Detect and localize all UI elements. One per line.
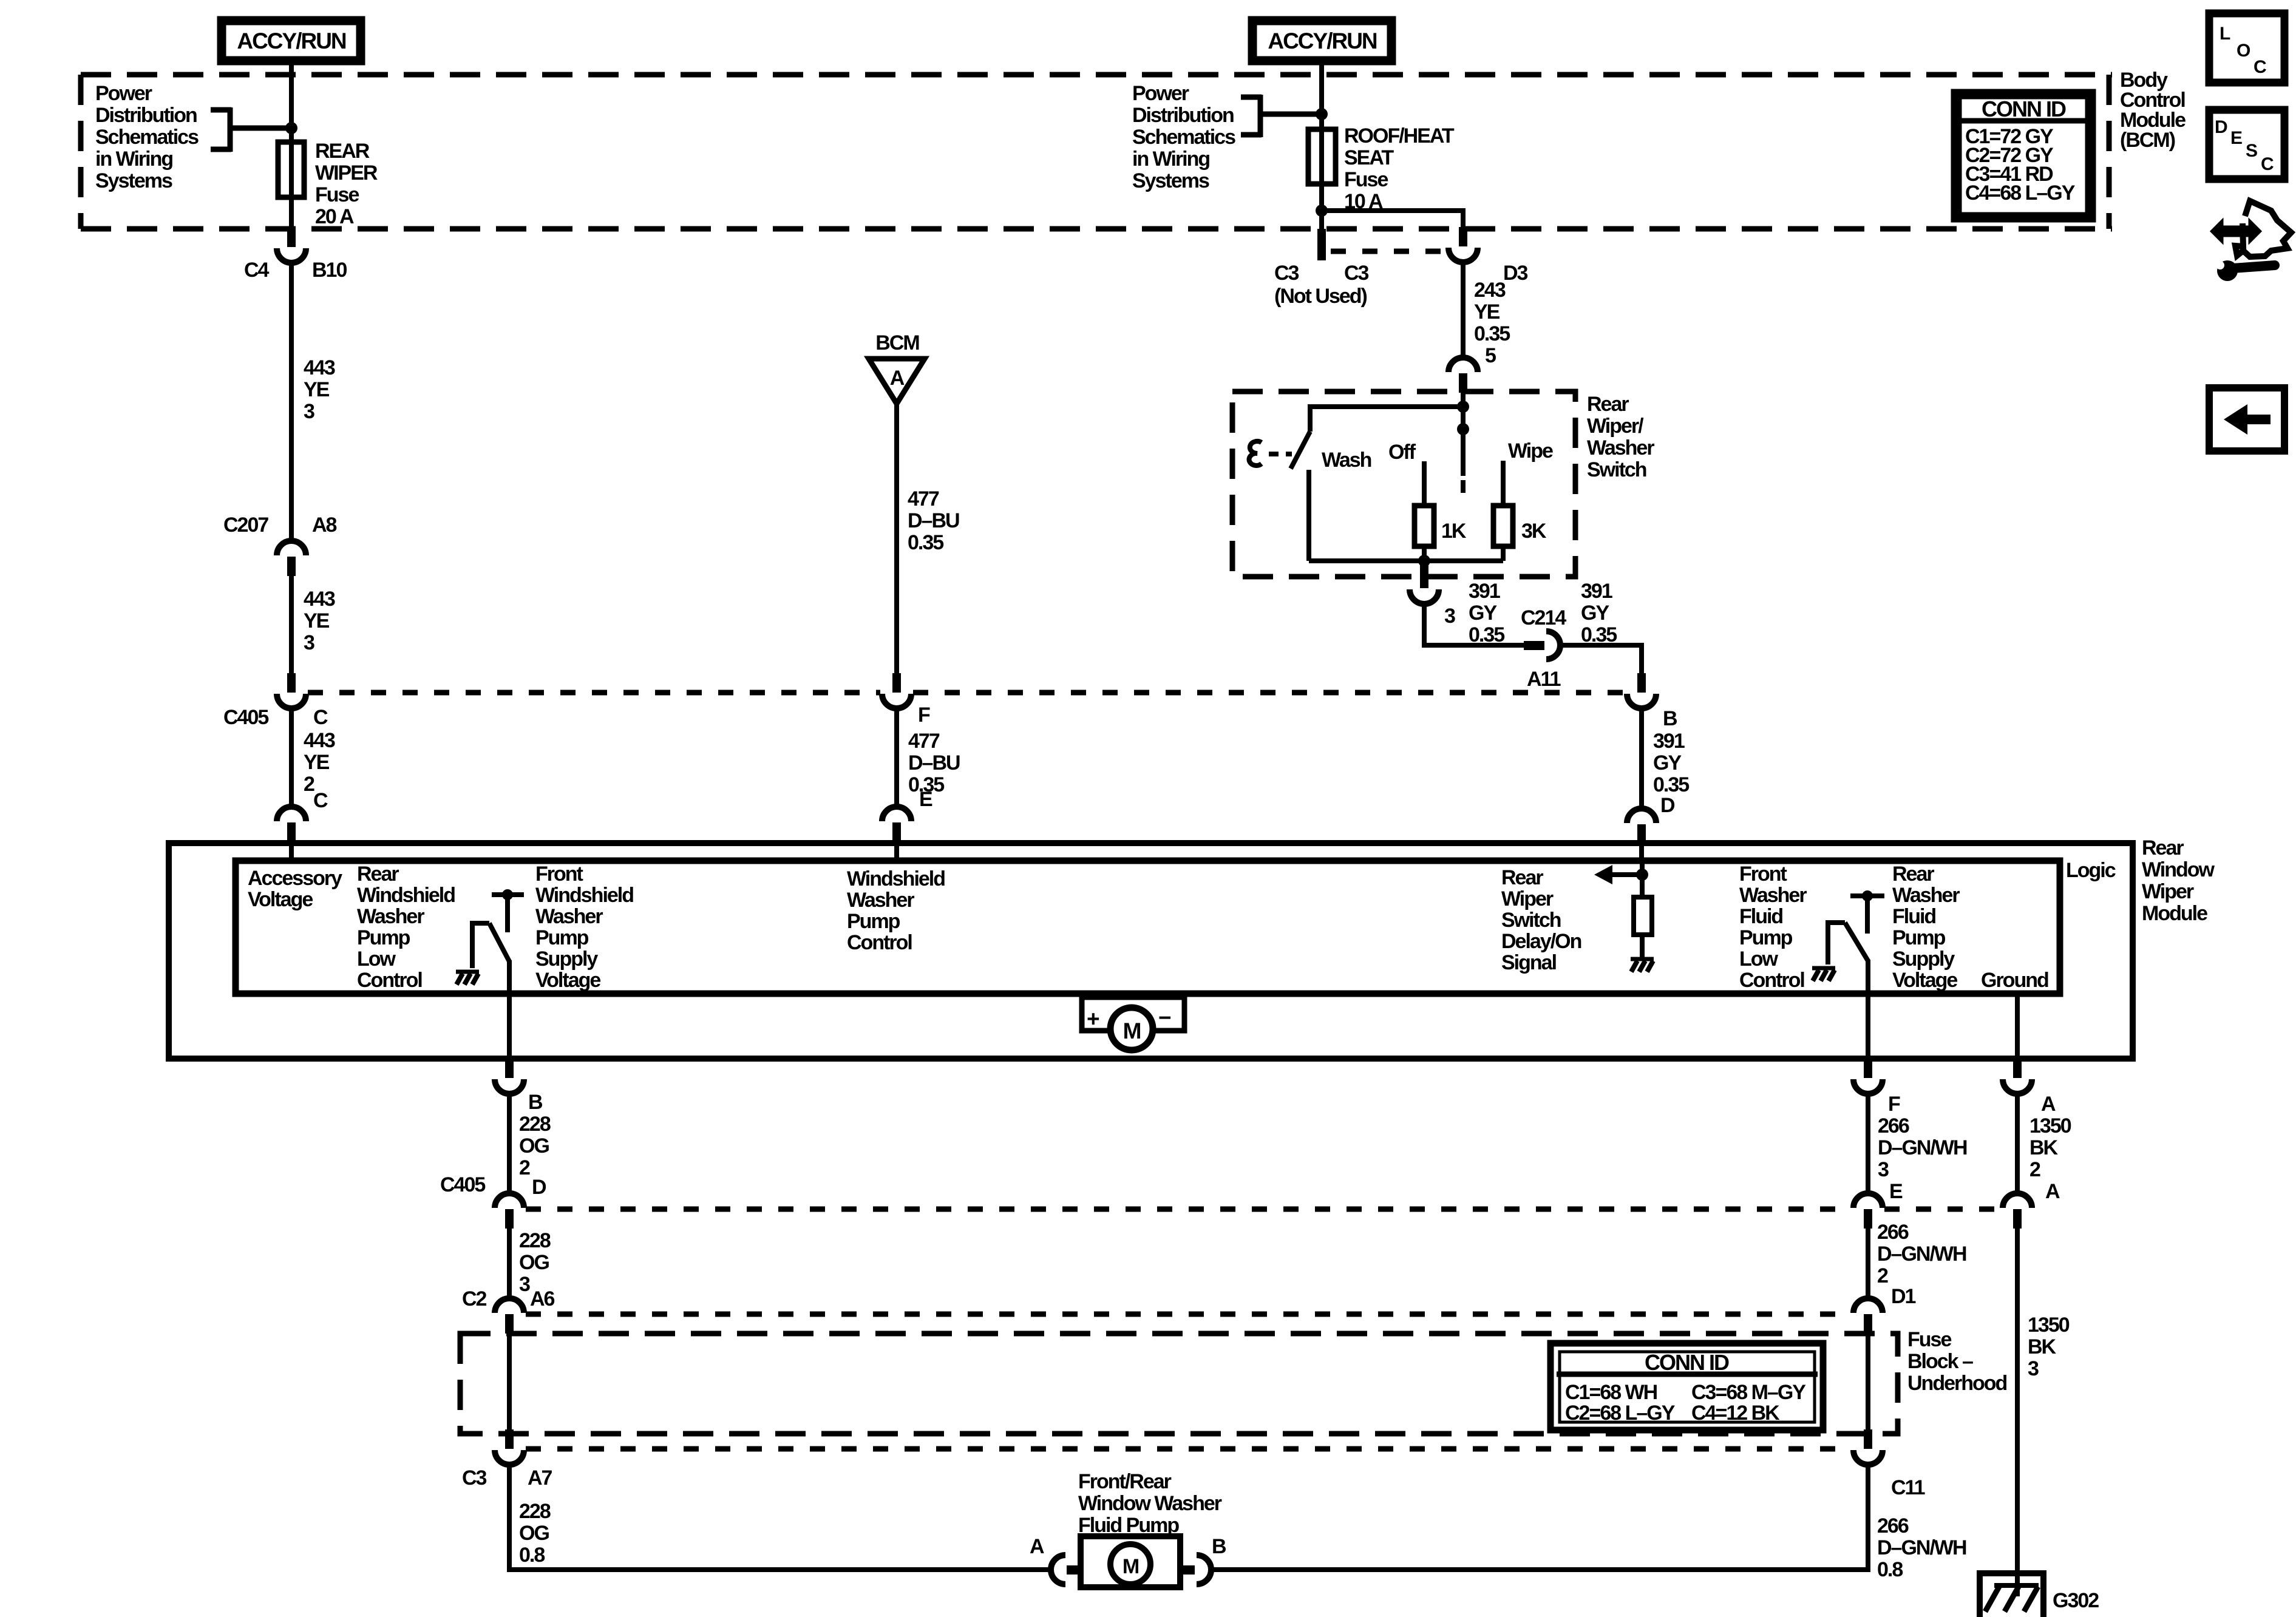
connector C4/B10 bbox=[277, 228, 306, 263]
svg-text:D1: D1 bbox=[1891, 1285, 1916, 1308]
node junction switch input 2 bbox=[1457, 423, 1469, 435]
switch pole open end dash bbox=[1461, 480, 1466, 493]
svg-text:Fluid: Fluid bbox=[1739, 905, 1782, 928]
svg-text:ACCY/RUN: ACCY/RUN bbox=[1268, 29, 1377, 53]
node junction switch output bbox=[1418, 555, 1430, 567]
svg-text:M: M bbox=[1123, 1019, 1141, 1043]
wire into module bbox=[894, 842, 899, 861]
svg-text:Wiper: Wiper bbox=[1501, 887, 1554, 910]
wire into module bbox=[289, 842, 294, 861]
svg-text:Front/Rear: Front/Rear bbox=[1078, 1470, 1172, 1493]
icon hand with arrow and wrench bbox=[2211, 201, 2291, 281]
svg-text:L: L bbox=[2220, 24, 2230, 44]
svg-text:Front: Front bbox=[1739, 863, 1787, 886]
svg-text:+: + bbox=[1087, 1006, 1099, 1031]
wire 477 D-BU bbox=[894, 404, 899, 673]
svg-text:A: A bbox=[890, 367, 905, 390]
resistor 3K bbox=[1493, 506, 1513, 546]
wire 228 OG 3 bbox=[507, 1229, 512, 1301]
svg-text:D–BU: D–BU bbox=[908, 509, 959, 532]
svg-text:D: D bbox=[532, 1176, 546, 1199]
svg-text:C: C bbox=[313, 789, 328, 812]
svg-text:Systems: Systems bbox=[95, 169, 172, 192]
ground bracket bbox=[1980, 1573, 2043, 1617]
svg-text:228: 228 bbox=[519, 1113, 551, 1136]
svg-text:Switch: Switch bbox=[1501, 909, 1561, 932]
svg-text:Voltage: Voltage bbox=[1892, 969, 1957, 992]
internal contact left: blade bbox=[489, 923, 509, 961]
svg-text:GY: GY bbox=[1581, 602, 1609, 625]
svg-text:0.8: 0.8 bbox=[1877, 1558, 1903, 1581]
dotted inline connector row 2 bbox=[526, 1207, 1852, 1212]
svg-text:Logic: Logic bbox=[2066, 859, 2116, 882]
wire 266 3 bbox=[1866, 1094, 1870, 1195]
BCM triangle A bbox=[869, 359, 925, 404]
svg-text:477: 477 bbox=[908, 487, 939, 510]
svg-text:YE: YE bbox=[1474, 300, 1500, 324]
wire 228 OG 2 bbox=[507, 1094, 512, 1195]
connector D3 bbox=[1449, 227, 1478, 262]
label 391 GY 0.35 (right) bbox=[1581, 580, 1617, 646]
connector C405 pin D (row 2) bbox=[495, 1193, 524, 1229]
svg-text:0.35: 0.35 bbox=[1474, 322, 1510, 345]
node junction below fuse bbox=[1316, 205, 1328, 217]
svg-text:Windshield: Windshield bbox=[535, 884, 633, 907]
svg-text:B: B bbox=[1663, 707, 1677, 730]
svg-text:A8: A8 bbox=[312, 514, 337, 537]
connector into module (D) bbox=[1627, 808, 1656, 844]
svg-text:M: M bbox=[1123, 1555, 1139, 1578]
svg-text:Low: Low bbox=[357, 947, 396, 971]
svg-text:2: 2 bbox=[2029, 1158, 2040, 1181]
svg-text:D: D bbox=[2215, 117, 2227, 137]
internal contact left: T bar bbox=[492, 892, 524, 897]
svg-text:C: C bbox=[2254, 57, 2266, 77]
svg-text:Fluid: Fluid bbox=[1892, 905, 1935, 928]
wire 391 GY to C214 bbox=[1424, 604, 1524, 645]
svg-text:228: 228 bbox=[519, 1500, 551, 1523]
dashed box bottom edge bbox=[81, 226, 2112, 232]
dashed box top edge bbox=[81, 72, 2112, 78]
wire 443 YE 2 bbox=[289, 708, 294, 807]
svg-text:Power: Power bbox=[95, 82, 152, 105]
svg-text:266: 266 bbox=[1877, 1514, 1909, 1537]
pin text Accessory Voltage bbox=[248, 867, 342, 911]
wire 228 OG 0.8 bbox=[509, 1465, 1051, 1570]
svg-text:Pump: Pump bbox=[1739, 926, 1793, 949]
svg-text:391: 391 bbox=[1581, 580, 1612, 603]
svg-text:D–BU: D–BU bbox=[908, 751, 960, 775]
svg-text:D–GN/WH: D–GN/WH bbox=[1877, 1536, 1966, 1559]
note text: Power Distribution Schematics (left) bbox=[95, 82, 199, 192]
switch dashed box bbox=[1232, 392, 1575, 577]
svg-text:Front: Front bbox=[535, 863, 583, 886]
connector 5 into switch bbox=[1449, 358, 1478, 393]
node junction middle feed bbox=[1316, 108, 1328, 120]
connector row 2 (A) bbox=[2003, 1193, 2032, 1229]
svg-text:O: O bbox=[2237, 41, 2250, 61]
svg-text:OG: OG bbox=[519, 1134, 549, 1158]
wire label 443 YE 3 bbox=[304, 356, 335, 423]
svg-text:0.8: 0.8 bbox=[519, 1544, 545, 1567]
connector pump A arc bbox=[1051, 1555, 1065, 1584]
svg-text:1350: 1350 bbox=[2029, 1114, 2071, 1137]
ground hatches bbox=[1985, 1587, 2038, 1612]
svg-text:391: 391 bbox=[1469, 580, 1500, 603]
power feed box ACCY/RUN (left) bbox=[222, 21, 361, 61]
connector C2 pin A6 (row 3) bbox=[495, 1298, 524, 1334]
fuse block dashed box bbox=[460, 1334, 1898, 1434]
svg-text:3: 3 bbox=[1878, 1158, 1889, 1181]
svg-text:Wash: Wash bbox=[1322, 449, 1371, 472]
svg-text:Distribution: Distribution bbox=[95, 104, 197, 127]
label Front/Rear Window Washer Fluid Pump bbox=[1078, 1470, 1222, 1537]
fuse label bbox=[315, 140, 378, 228]
svg-text:ACCY/RUN: ACCY/RUN bbox=[237, 29, 346, 53]
internal contact right: blade bbox=[1845, 923, 1868, 961]
dotted inline connector row 3 bbox=[526, 1312, 1852, 1317]
svg-text:C405: C405 bbox=[223, 706, 268, 729]
svg-text:E: E bbox=[1889, 1180, 1903, 1203]
svg-text:C3=68 M–GY: C3=68 M–GY bbox=[1691, 1381, 1806, 1404]
svg-text:0.35: 0.35 bbox=[1653, 773, 1689, 796]
svg-text:C4: C4 bbox=[244, 259, 270, 282]
svg-text:Window Washer: Window Washer bbox=[1078, 1492, 1222, 1515]
motor M circle bbox=[1110, 1008, 1153, 1050]
internal wire D input bbox=[1640, 861, 1645, 897]
svg-text:Fuse: Fuse bbox=[1907, 1328, 1951, 1351]
svg-text:YE: YE bbox=[304, 751, 330, 774]
svg-text:OG: OG bbox=[519, 1251, 549, 1274]
svg-text:D–GN/WH: D–GN/WH bbox=[1878, 1136, 1967, 1159]
svg-text:0.35: 0.35 bbox=[908, 531, 943, 554]
pump motor circle bbox=[1110, 1544, 1150, 1584]
wire fuse to C4 bbox=[289, 197, 294, 228]
svg-text:Schematics: Schematics bbox=[1132, 126, 1235, 149]
module outer box bbox=[169, 843, 2133, 1059]
wire below fuse bbox=[1319, 184, 1324, 229]
label 391 GY 0.35 (left) bbox=[1469, 580, 1504, 646]
connector C405 pin B (row 1) bbox=[1627, 673, 1656, 708]
svg-text:BK: BK bbox=[2028, 1335, 2057, 1358]
svg-text:Pump: Pump bbox=[847, 910, 900, 933]
wire through fuse block bbox=[507, 1334, 512, 1433]
node junction D input bbox=[1636, 869, 1648, 881]
svg-text:E: E bbox=[2230, 128, 2242, 148]
svg-text:Wiper/: Wiper/ bbox=[1587, 415, 1644, 438]
resistor 1K bbox=[1415, 506, 1434, 546]
resistor 1K lower stem bbox=[1422, 545, 1427, 561]
svg-text:A11: A11 bbox=[1527, 668, 1561, 691]
svg-text:A: A bbox=[2041, 1093, 2056, 1116]
svg-text:Power: Power bbox=[1132, 82, 1189, 105]
fuse label bbox=[1344, 124, 1455, 213]
connector D1 (row 3) bbox=[1853, 1298, 1883, 1334]
svg-text:C207: C207 bbox=[223, 514, 268, 537]
label Fuse Block - Underhood bbox=[1907, 1328, 2007, 1395]
connector C207/A8 bbox=[277, 541, 306, 576]
dashed box right edge (BCM) bbox=[2107, 75, 2112, 229]
switch blade bbox=[1291, 432, 1310, 469]
svg-text:C3: C3 bbox=[462, 1466, 487, 1490]
svg-text:A6: A6 bbox=[530, 1287, 555, 1310]
svg-text:20 A: 20 A bbox=[315, 205, 354, 228]
svg-text:Off: Off bbox=[1388, 441, 1416, 464]
svg-text:SEAT: SEAT bbox=[1344, 146, 1394, 169]
label 477 D-BU 0.35 bbox=[908, 487, 959, 554]
wire 266 0.8 bbox=[1212, 1465, 1868, 1570]
svg-text:Voltage: Voltage bbox=[248, 888, 313, 911]
wire 477 to module bbox=[894, 708, 899, 808]
label Body Control Module (BCM) bbox=[2120, 69, 2186, 152]
node junction left feed bbox=[285, 122, 297, 134]
svg-text:Control: Control bbox=[847, 931, 912, 954]
svg-text:2: 2 bbox=[519, 1156, 530, 1179]
svg-text:477: 477 bbox=[908, 730, 940, 753]
svg-text:228: 228 bbox=[519, 1229, 551, 1252]
svg-text:−: − bbox=[1158, 1005, 1171, 1030]
resistor 3K lower stem bbox=[1501, 545, 1506, 561]
svg-text:Fuse: Fuse bbox=[315, 183, 359, 206]
connector into module (C) bbox=[277, 807, 306, 842]
svg-text:C3: C3 bbox=[1344, 262, 1369, 285]
wire into switch box bbox=[1461, 392, 1466, 476]
svg-text:D–GN/WH: D–GN/WH bbox=[1877, 1242, 1966, 1266]
svg-text:Washer: Washer bbox=[1739, 884, 1807, 907]
bracket to middle note bbox=[1241, 95, 1322, 137]
svg-text:266: 266 bbox=[1877, 1221, 1909, 1244]
note text: Power Distribution Schematics (middle) bbox=[1132, 82, 1235, 192]
icon back-arrow box bbox=[2209, 388, 2284, 451]
svg-text:Schematics: Schematics bbox=[95, 126, 199, 149]
CONN ID table (BCM) bbox=[1955, 93, 2092, 219]
pin text Rear Wiper Switch Delay/On Signal bbox=[1501, 866, 1581, 974]
stub switch output bbox=[1420, 561, 1428, 588]
motor bracket bbox=[1082, 997, 1184, 1031]
svg-text:Signal: Signal bbox=[1501, 951, 1557, 974]
connector F below module bbox=[1853, 1059, 1883, 1094]
connector pump A stub bbox=[1067, 1565, 1081, 1575]
svg-text:Delay/On: Delay/On bbox=[1501, 930, 1581, 953]
svg-text:Washer: Washer bbox=[1587, 436, 1654, 459]
svg-text:443: 443 bbox=[304, 729, 335, 752]
wire front washer pump low control (F out) bbox=[1866, 960, 1870, 1059]
power feed box ACCY/RUN (middle) bbox=[1252, 21, 1391, 61]
pin text Windshield Washer Pump Control bbox=[847, 867, 945, 954]
svg-text:C2=68 L–GY: C2=68 L–GY bbox=[1565, 1402, 1676, 1425]
svg-text:C4=68 L–GY: C4=68 L–GY bbox=[1965, 181, 2076, 205]
CONN ID table (fuse block) bbox=[1550, 1343, 1823, 1430]
svg-text:Washer: Washer bbox=[535, 905, 603, 928]
svg-text:F: F bbox=[918, 703, 930, 727]
internal resistor bbox=[1634, 897, 1652, 935]
pin text Front Windshield Washer Pump Supply Voltage bbox=[535, 863, 633, 992]
svg-text:Accessory: Accessory bbox=[248, 867, 342, 890]
svg-text:A7: A7 bbox=[528, 1466, 552, 1490]
svg-text:Systems: Systems bbox=[1132, 169, 1209, 192]
connector C405 pin E (row 2) bbox=[1853, 1193, 1883, 1229]
svg-text:Washer: Washer bbox=[847, 889, 914, 912]
svg-text:C405: C405 bbox=[440, 1173, 485, 1196]
svg-text:CONN ID: CONN ID bbox=[1982, 97, 2066, 121]
wire into module bbox=[1639, 844, 1644, 861]
svg-text:C: C bbox=[2261, 154, 2274, 174]
wire 443 YE 3 bbox=[289, 263, 294, 540]
svg-text:GY: GY bbox=[1469, 602, 1497, 625]
svg-text:B10: B10 bbox=[312, 259, 347, 282]
svg-text:3K: 3K bbox=[1521, 520, 1547, 543]
connector C3 pin A7 (row 4) bbox=[495, 1429, 524, 1465]
svg-text:F: F bbox=[1888, 1093, 1900, 1116]
svg-text:REAR: REAR bbox=[315, 140, 370, 163]
svg-text:D: D bbox=[1660, 794, 1675, 817]
wire 1350 2 bbox=[2015, 1094, 2020, 1195]
svg-text:Low: Low bbox=[1739, 947, 1779, 971]
ground bar bbox=[1994, 1583, 2039, 1588]
svg-text:BCM: BCM bbox=[875, 331, 919, 354]
svg-text:G302: G302 bbox=[2053, 1589, 2099, 1612]
svg-text:BK: BK bbox=[2029, 1136, 2059, 1159]
svg-text:243: 243 bbox=[1474, 279, 1506, 302]
fuse REAR WIPER 20A bbox=[278, 142, 304, 197]
svg-text:S: S bbox=[2246, 141, 2257, 161]
svg-text:YE: YE bbox=[304, 609, 330, 632]
svg-text:OG: OG bbox=[519, 1522, 549, 1545]
svg-text:Washer: Washer bbox=[357, 905, 424, 928]
svg-text:3: 3 bbox=[519, 1273, 530, 1296]
wire 243 YE down to switch bbox=[1461, 262, 1466, 358]
svg-text:Windshield: Windshield bbox=[357, 884, 455, 907]
internal contact right: T bar bbox=[1850, 893, 1884, 898]
icon DESC box bbox=[2209, 110, 2284, 179]
svg-text:B: B bbox=[528, 1091, 543, 1114]
svg-text:Rear: Rear bbox=[1587, 393, 1629, 416]
connector pump B stub bbox=[1180, 1565, 1195, 1575]
wire 1350 BK 3 to ground bbox=[2015, 1229, 2020, 1596]
mechanical link dashes bbox=[1269, 452, 1292, 456]
connector into module (E) bbox=[882, 807, 911, 842]
internal contact right: coil bracket bbox=[1828, 923, 1845, 964]
svg-text:Distribution: Distribution bbox=[1132, 104, 1234, 127]
fuse ROOF/HEAT SEAT 10A bbox=[1308, 129, 1336, 184]
svg-text:WIPER: WIPER bbox=[315, 161, 378, 185]
svg-text:1K: 1K bbox=[1441, 520, 1467, 543]
wire ground pin (A out) bbox=[2015, 994, 2020, 1059]
svg-text:ROOF/HEAT: ROOF/HEAT bbox=[1344, 124, 1455, 147]
svg-text:CONN ID: CONN ID bbox=[1645, 1350, 1729, 1375]
svg-text:Module: Module bbox=[2142, 902, 2207, 925]
switch box label bbox=[1587, 393, 1654, 481]
svg-text:Fuse: Fuse bbox=[1344, 168, 1388, 191]
svg-text:D3: D3 bbox=[1503, 262, 1528, 285]
svg-text:E: E bbox=[919, 788, 932, 811]
svg-text:C3: C3 bbox=[1274, 262, 1299, 285]
svg-text:YE: YE bbox=[304, 378, 330, 401]
svg-text:0.35: 0.35 bbox=[1469, 623, 1504, 646]
ground internal right bbox=[1812, 968, 1835, 981]
resistor 3K stem bbox=[1501, 461, 1506, 508]
svg-text:Switch: Switch bbox=[1587, 458, 1646, 481]
svg-text:C11: C11 bbox=[1891, 1476, 1925, 1499]
svg-text:443: 443 bbox=[304, 356, 335, 379]
svg-text:Ground: Ground bbox=[1981, 969, 2048, 992]
svg-text:Voltage: Voltage bbox=[535, 969, 600, 992]
label Rear Window Wiper Module bbox=[2142, 836, 2215, 925]
pin text Rear Windshield Washer Pump Low Control bbox=[357, 863, 455, 992]
svg-text:C4=12 BK: C4=12 BK bbox=[1691, 1402, 1780, 1425]
svg-text:266: 266 bbox=[1878, 1114, 1909, 1137]
bracket to left note bbox=[211, 107, 291, 152]
svg-text:C214: C214 bbox=[1521, 606, 1566, 629]
svg-text:Control: Control bbox=[357, 969, 422, 992]
svg-text:C: C bbox=[313, 706, 328, 729]
resistor 1K stem bbox=[1422, 461, 1427, 508]
svg-text:391: 391 bbox=[1653, 730, 1685, 753]
stub C3 not used bbox=[1317, 229, 1326, 260]
svg-text:Block –: Block – bbox=[1907, 1350, 1973, 1373]
connector C214 arc bbox=[1546, 631, 1560, 659]
svg-text:(BCM): (BCM) bbox=[2120, 129, 2175, 152]
svg-text:Washer: Washer bbox=[1892, 884, 1960, 907]
svg-text:Window: Window bbox=[2142, 858, 2215, 881]
module logic inner box bbox=[236, 861, 2060, 994]
node junction switch input 1 bbox=[1457, 401, 1469, 413]
dotted inline connector row 4 bbox=[526, 1446, 1852, 1452]
connector C11 (row 4) bbox=[1853, 1429, 1883, 1465]
svg-text:Underhood: Underhood bbox=[1907, 1372, 2007, 1395]
svg-text:C2: C2 bbox=[462, 1287, 487, 1310]
svg-text:Supply: Supply bbox=[535, 947, 598, 971]
svg-text:Pump: Pump bbox=[357, 926, 410, 949]
wire through fuse block bbox=[1866, 1334, 1870, 1433]
svg-text:3: 3 bbox=[304, 631, 314, 654]
dotted connector row C3 bbox=[1331, 249, 1449, 254]
pin text Front Washer Fluid Pump Low Control bbox=[1739, 863, 1807, 992]
icon LOC box bbox=[2209, 13, 2284, 83]
svg-text:2: 2 bbox=[1877, 1264, 1888, 1287]
svg-text:B: B bbox=[1212, 1535, 1226, 1558]
mechanical link curl bbox=[1249, 441, 1262, 466]
svg-text:5: 5 bbox=[1485, 344, 1496, 367]
svg-text:3: 3 bbox=[2028, 1357, 2039, 1380]
dashed box left edge bbox=[78, 75, 84, 229]
dotted inline connector row C405 (row 1) bbox=[308, 690, 880, 696]
wire ACCY/RUN middle feed bbox=[1319, 61, 1324, 129]
arrow to rear wiper switch signal bbox=[1609, 872, 1642, 877]
svg-text:Rear: Rear bbox=[2142, 836, 2184, 859]
svg-text:Supply: Supply bbox=[1892, 947, 1955, 971]
connector A below module bbox=[2003, 1059, 2032, 1094]
svg-text:(Not Used): (Not Used) bbox=[1274, 285, 1367, 308]
wash contact stem bbox=[1306, 470, 1311, 561]
svg-text:Wipe: Wipe bbox=[1508, 439, 1553, 463]
label 477 D-BU 0.35 E bbox=[908, 730, 960, 796]
wire 266 2 bbox=[1866, 1229, 1870, 1301]
connector C405 pin C (row 1) bbox=[277, 673, 306, 708]
svg-text:Rear: Rear bbox=[1892, 863, 1934, 886]
connector B below module bbox=[495, 1059, 524, 1094]
wire rear washer pump low control (B out) bbox=[507, 960, 512, 1059]
connector C405 pin F (row 1) bbox=[882, 673, 911, 708]
svg-text:A: A bbox=[2045, 1180, 2060, 1203]
svg-text:GY: GY bbox=[1653, 751, 1682, 775]
svg-text:Pump: Pump bbox=[1892, 926, 1946, 949]
pump box bbox=[1081, 1536, 1180, 1587]
svg-text:A: A bbox=[1030, 1535, 1044, 1558]
switch bottom bus bbox=[1309, 558, 1503, 563]
wire ACCY/RUN left feed bbox=[289, 61, 294, 142]
wire C214 to B bbox=[1560, 645, 1642, 673]
